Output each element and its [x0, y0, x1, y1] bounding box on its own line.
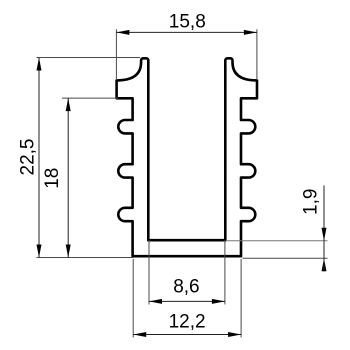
extension line 8.6 right — [224, 240, 226, 305]
dimension line 1.9 — [323, 185, 325, 240]
extension line 12.2 left — [132, 259, 134, 338]
dimension line 18 — [67, 98, 69, 257]
extension line 15.8 right — [256, 29, 258, 80]
extension line 1.9 top — [226, 240, 328, 242]
profile outline (U-channel cross-section) — [117, 58, 257, 256]
svg-text:15,8: 15,8 — [169, 11, 206, 32]
extension line 12.2 right — [240, 259, 242, 338]
dimension line 15.8 — [116, 31, 257, 33]
extension line 15.8 left — [115, 29, 117, 80]
extension line 22.5/18 bottom — [37, 257, 134, 259]
dimension line 8.6 — [149, 300, 225, 302]
extension line 8.6 left — [148, 240, 150, 305]
svg-text:18: 18 — [42, 168, 63, 189]
dimension line 22.5 — [38, 58, 40, 258]
dimension line 12.2 — [133, 334, 241, 336]
svg-text:12,2: 12,2 — [169, 311, 206, 332]
extension line 1.9 bottom — [243, 257, 328, 259]
extension line 22.5 top — [37, 57, 141, 59]
svg-text:22,5: 22,5 — [18, 139, 39, 176]
svg-text:1,9: 1,9 — [300, 189, 321, 215]
svg-text:8,6: 8,6 — [173, 277, 199, 298]
extension line 18 top — [62, 97, 118, 99]
